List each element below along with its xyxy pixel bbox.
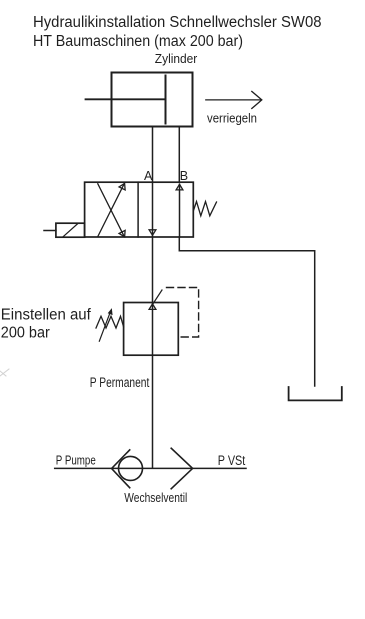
svg-text:P Pumpe: P Pumpe	[56, 453, 96, 468]
svg-text:Zylinder: Zylinder	[155, 51, 198, 66]
svg-text:P Permanent: P Permanent	[90, 375, 150, 390]
svg-text:A: A	[144, 169, 153, 183]
svg-text:Hydraulikinstallation Schnellw: Hydraulikinstallation Schnellwechsler SW…	[33, 14, 322, 31]
svg-text:Einstellen auf: Einstellen auf	[1, 306, 92, 323]
svg-text:P VSt: P VSt	[218, 453, 246, 468]
svg-text:HT Baumaschinen (max 200 bar): HT Baumaschinen (max 200 bar)	[33, 33, 243, 50]
svg-text:200 bar: 200 bar	[1, 325, 50, 342]
svg-text:Wechselventil: Wechselventil	[124, 490, 187, 505]
svg-text:verriegeln: verriegeln	[207, 110, 257, 125]
svg-text:B: B	[180, 169, 188, 183]
